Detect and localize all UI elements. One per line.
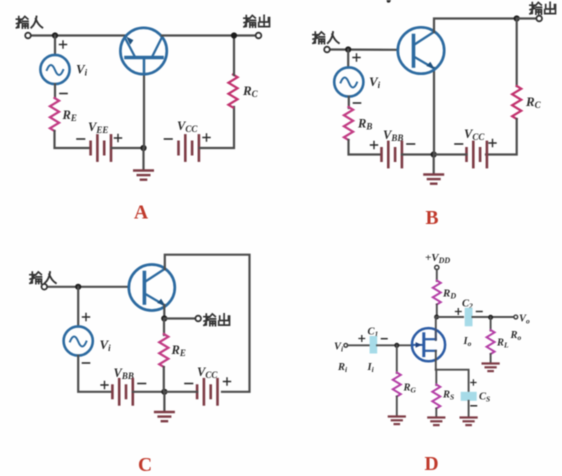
ground C [155, 412, 174, 421]
node center rail C [161, 389, 167, 395]
node output junction D [488, 315, 493, 320]
wire to output terminal C [164, 317, 196, 319]
wire RE to rail A [55, 131, 90, 148]
resistor RC A [228, 75, 237, 108]
wire input to C1 [348, 344, 371, 346]
plus sign VCC B [489, 140, 496, 147]
ground below RS [428, 418, 444, 426]
ground below RL [483, 364, 499, 372]
minus sign Vi A [60, 93, 67, 95]
plus sign VBB C [101, 382, 108, 389]
minus sign Vi C [83, 362, 90, 364]
node center rail A [140, 145, 146, 151]
input terminal C [42, 284, 48, 290]
ground A [134, 171, 153, 180]
wire node to ground C [163, 392, 165, 411]
minus sign VBB C [138, 383, 146, 385]
wire RS to ground [435, 409, 437, 417]
transistor Q1 C [129, 265, 175, 311]
output terminal D [514, 315, 518, 319]
stray speck top edge [387, 0, 392, 3]
wire RC to rail B [486, 119, 517, 155]
terminal VDD [435, 265, 439, 269]
wire input to transistor C [47, 286, 130, 288]
output terminal B [536, 16, 542, 22]
node output A [231, 32, 237, 38]
wire RD to drain node [436, 305, 438, 318]
ground below RG [389, 417, 405, 425]
resistor RE A [50, 98, 59, 131]
wire VBB to center node C [133, 391, 164, 393]
svg-text:B: B [426, 208, 439, 229]
resistor RG [393, 373, 401, 397]
label 输入 (input) A [16, 16, 42, 28]
plus sign CS [471, 380, 476, 385]
wire VCC to center node C [164, 391, 197, 393]
wire junction to source [54, 36, 56, 56]
node source junction [436, 370, 469, 393]
capacitor CS [461, 392, 477, 401]
battery VEE A [91, 135, 111, 160]
wire FET drain internal up [435, 330, 437, 339]
input terminal D [344, 343, 348, 347]
label 输出 (output) A [244, 15, 270, 27]
wire output node to RL [490, 317, 492, 330]
minus sign VCC C [185, 383, 193, 385]
wire drain node to C2 [437, 316, 463, 318]
node (junction) input A [52, 32, 58, 38]
label 输入 (input) C [30, 272, 56, 284]
wire CS to ground [468, 401, 470, 417]
source Vi C [64, 326, 93, 355]
wire junction to source B [347, 50, 349, 68]
node gate junction [394, 343, 399, 348]
battery VBB C [112, 379, 132, 404]
wire junction to source C [77, 287, 79, 327]
minus sign VCC B [455, 143, 463, 145]
label 输出 (output) C [204, 314, 230, 326]
svg-text:D: D [425, 454, 439, 475]
ground below CS [461, 418, 477, 426]
wire C2 to output node [473, 316, 514, 318]
transistor Q1 A (common-base) [120, 28, 166, 74]
battery VCC B [467, 142, 487, 167]
plus sign Vi B [353, 54, 360, 61]
svg-text:C: C [138, 455, 152, 476]
label 输出 (output) B [530, 2, 556, 14]
wire source to RB [348, 97, 350, 108]
wire source to RE [54, 84, 56, 98]
node output junction B [514, 15, 520, 21]
minus sign C2 [477, 311, 483, 313]
capacitor C1 [370, 336, 378, 354]
resistor RB [344, 107, 353, 140]
wire RC to output A [234, 36, 256, 76]
node input junction C [75, 284, 81, 290]
plus sign VEE [115, 135, 122, 142]
minus sign VEE [77, 138, 85, 140]
wire output down through RC B [516, 19, 518, 87]
ground B [424, 175, 443, 184]
battery VCC A [179, 135, 199, 160]
wire source to RS [435, 370, 437, 385]
wire input to transistor B [330, 48, 399, 50]
wire RE to rail C [163, 367, 165, 392]
source Vi A [40, 55, 69, 84]
node center rail B [431, 151, 437, 157]
wire collector to top rail B [434, 19, 517, 33]
transistor Q1 B [398, 27, 444, 73]
plus sign C1 [359, 336, 365, 342]
minus sign C1 [382, 338, 388, 340]
minus sign CS [471, 405, 477, 407]
wire input to transistor [31, 34, 125, 36]
wire gate node to RG [396, 345, 398, 373]
wire RL to ground [490, 354, 492, 363]
wire collector to top rail C [165, 255, 250, 392]
wire VCC to right rail A [200, 107, 234, 148]
wire RB to rail B [349, 140, 381, 155]
wire VDD to RD [436, 270, 438, 282]
minus sign VCC A [165, 138, 173, 140]
FET Q1 D [412, 328, 445, 361]
input terminal B [324, 47, 330, 53]
label 输入 (input) B [313, 32, 339, 44]
resistor RS [432, 385, 440, 409]
resistor RC B [512, 86, 521, 119]
wire VEE to center node [112, 147, 144, 149]
output terminal A [256, 33, 262, 39]
wire VCC to center node B [434, 153, 467, 155]
wire node to ground B [433, 155, 435, 174]
plus sign VCC C [224, 378, 231, 385]
plus sign VCC A [203, 134, 210, 141]
output terminal C [195, 316, 201, 322]
wire emitter node to RE C [163, 319, 165, 336]
plus sign C2 [456, 309, 462, 315]
node input junction B [345, 46, 351, 52]
svg-text:A: A [134, 203, 148, 224]
minus sign Vi B [354, 102, 361, 104]
plus sign VBB [371, 142, 378, 149]
battery VBB [382, 142, 402, 167]
plus sign Vi C [83, 314, 90, 321]
resistor RE C [159, 334, 168, 367]
wire drain node to FET [435, 317, 437, 340]
node drain junction [434, 315, 439, 320]
source Vi B [334, 67, 363, 96]
wire base lead A [143, 59, 145, 148]
wire to output terminal B [517, 17, 537, 19]
input terminal A [25, 33, 31, 39]
battery VCC C [197, 379, 217, 404]
wire transistor to output node [162, 34, 234, 36]
wire source down [435, 351, 437, 370]
wire RG to ground [396, 397, 398, 416]
resistor RL [487, 330, 495, 354]
wire VBB to center node B [402, 153, 434, 155]
wire node to ground A [142, 148, 144, 170]
wire source to rail C [78, 356, 111, 392]
minus sign VBB [407, 143, 415, 145]
wire C1 to gate node [377, 344, 413, 346]
capacitor C2 [465, 308, 473, 327]
wire emitter lead B [433, 68, 435, 155]
wire emitter to output node C [163, 305, 165, 319]
node emitter junction C [161, 315, 167, 321]
resistor RD [433, 281, 441, 305]
plus sign Vi A [60, 41, 67, 48]
